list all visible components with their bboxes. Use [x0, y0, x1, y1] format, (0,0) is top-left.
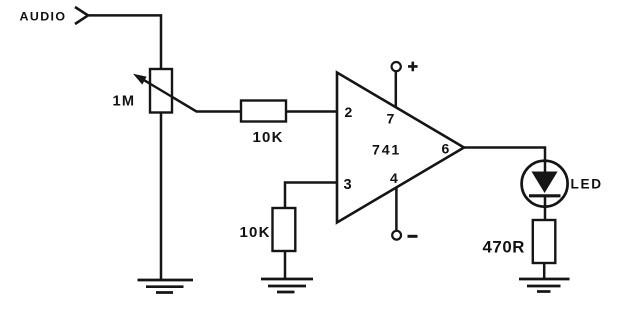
- svg-text:AUDIO: AUDIO: [20, 9, 67, 23]
- svg-text:3: 3: [344, 177, 352, 193]
- svg-text:741: 741: [372, 143, 401, 159]
- svg-text:10K: 10K: [253, 129, 284, 146]
- svg-text:4: 4: [390, 170, 398, 186]
- svg-text:470R: 470R: [483, 237, 526, 256]
- svg-text:1M: 1M: [113, 93, 136, 109]
- svg-text:7: 7: [387, 111, 395, 127]
- svg-text:2: 2: [345, 104, 353, 120]
- svg-text:6: 6: [442, 140, 450, 156]
- svg-text:10K: 10K: [240, 224, 271, 241]
- svg-text:LED: LED: [571, 176, 603, 191]
